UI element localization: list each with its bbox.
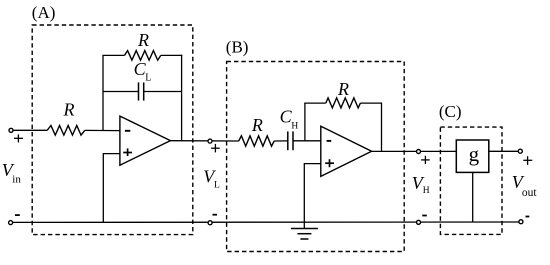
capacitor CH plates (287, 131, 289, 150)
terminal VH bottom (417, 220, 421, 224)
minus sign Vin (15, 214, 20, 216)
plus sign VL (211, 147, 220, 149)
wire feedback top-right lead (B) (360, 102, 381, 104)
plus sign Vout (523, 159, 532, 161)
svg-text:in: in (12, 174, 21, 186)
terminal VL bottom (208, 221, 212, 225)
svg-text:R: R (251, 115, 263, 135)
bottom rail wire (12, 221, 519, 223)
wire resistor to op-amp inverting input (85, 129, 120, 131)
svg-text:(A): (A) (32, 3, 56, 22)
ground (291, 228, 318, 230)
block A dashed box (32, 25, 193, 235)
resistor R (B feedback) (326, 98, 361, 108)
op-amp U1 triangle (120, 116, 170, 165)
capacitor CL plates (138, 82, 140, 100)
svg-text:H: H (423, 186, 430, 196)
terminal Vout bottom (519, 220, 523, 224)
terminal Vin bottom (9, 221, 13, 225)
svg-text:g: g (469, 142, 480, 166)
wire resistor to capacitor CH (274, 140, 288, 142)
wire feedback top-left lead (102, 54, 124, 56)
op-amp U2 triangle (321, 126, 372, 176)
node: feedback left vertical (A) (102, 55, 104, 130)
terminal Vout top (518, 149, 522, 153)
wire op-amp A noninverting input (103, 154, 120, 223)
svg-text:R: R (137, 30, 149, 50)
op-amp U2 minus (327, 140, 332, 142)
svg-text:H: H (291, 121, 298, 131)
op-amp U2 plus (325, 162, 334, 164)
resistor R (A feedback) (125, 51, 161, 61)
svg-text:out: out (522, 187, 538, 199)
terminal VL top (208, 139, 212, 143)
svg-text:(B): (B) (226, 38, 249, 57)
minus sign Vout (526, 216, 530, 218)
wire op-amp B noninverting input (304, 164, 321, 229)
minus sign VH (422, 215, 427, 217)
block B dashed box (227, 62, 405, 252)
gain block g (456, 140, 489, 172)
wire feedback right vertical (B) (381, 102, 383, 151)
plus sign Vin (14, 137, 23, 139)
wire op-amp B output (372, 150, 457, 152)
wire op-amp A output (170, 140, 238, 142)
resistor R (B input) (239, 136, 275, 146)
wire Vin to resistor (13, 129, 47, 131)
terminal VH top (417, 150, 421, 154)
plus sign VH (421, 159, 430, 161)
op-amp U1 plus (123, 152, 132, 154)
wire g block output (489, 150, 520, 152)
terminal Vin top (9, 128, 13, 132)
minus sign VL (213, 214, 218, 216)
wire feedback top-right lead (161, 54, 183, 56)
svg-text:L: L (214, 181, 220, 191)
wire feedback right vertical (A) (181, 55, 183, 141)
wire capacitor left lead (103, 91, 139, 93)
wire g block to ground rail (472, 172, 474, 222)
wire feedback top-left lead (B) (304, 102, 326, 104)
op-amp U1 minus (125, 130, 130, 132)
block C dashed box (440, 127, 502, 234)
resistor R (A input) (47, 126, 85, 136)
svg-text:R: R (337, 79, 349, 99)
svg-text:(C): (C) (439, 102, 462, 121)
svg-text:R: R (63, 100, 75, 120)
svg-text:L: L (145, 72, 151, 83)
wire feedback left vertical (B) (304, 103, 306, 141)
wire capacitor to op-amp B inverting input (293, 140, 321, 142)
wire capacitor right lead (144, 91, 182, 93)
